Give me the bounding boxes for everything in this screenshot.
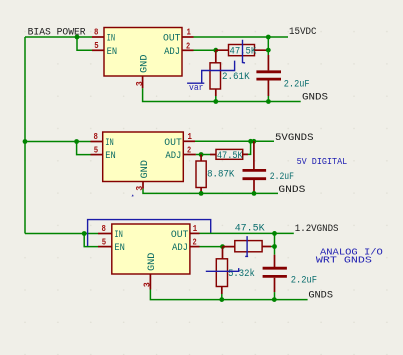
pin 1 OUT U2	[164, 131, 195, 149]
note bypass line U3	[88, 220, 211, 246]
svg-text:GND: GND	[139, 55, 150, 74]
svg-text:1: 1	[193, 223, 198, 234]
resistor 2.61K (U1 adj)	[210, 50, 250, 96]
wire: cap U3 to GNDS	[274, 292, 276, 300]
junction ADJ node U1	[213, 48, 218, 53]
pin 8 IN U2	[91, 131, 114, 149]
pin 3 GND U3	[142, 253, 159, 290]
svg-text:3: 3	[142, 282, 153, 287]
note stray blue mark	[132, 194, 134, 196]
svg-text:ADJ: ADJ	[172, 243, 188, 254]
svg-text:OUT: OUT	[164, 138, 182, 149]
svg-text:15VDC: 15VDC	[289, 27, 317, 38]
pin 8 IN U3	[98, 223, 123, 241]
resistor 47.5K (U1 feedback)	[216, 45, 268, 58]
wire: U3 ADJ to divider	[200, 246, 223, 248]
pin 1 OUT U3	[171, 223, 200, 241]
wire: EN branch U1	[77, 37, 92, 50]
svg-text:GND: GND	[140, 160, 151, 179]
wire: OUT column down U1	[267, 37, 269, 55]
junction at EN branch U2	[74, 139, 79, 144]
svg-text:5VGNDS: 5VGNDS	[275, 133, 314, 144]
svg-text:var: var	[189, 83, 204, 93]
svg-text:GND: GND	[147, 253, 158, 272]
svg-text:1: 1	[187, 27, 192, 38]
svg-text:ADJ: ADJ	[164, 47, 180, 58]
note strike on 47.5K U3	[245, 236, 248, 256]
svg-text:8: 8	[102, 223, 107, 234]
junction 47.5K right U1	[266, 48, 271, 53]
junction ADJ node U3	[220, 244, 225, 249]
svg-text:IN: IN	[105, 138, 114, 149]
junction at EN branch U3	[82, 231, 87, 236]
pin 8 IN U1	[92, 27, 115, 45]
resistor 8.87K (U2 adj)	[196, 155, 234, 194]
svg-text:2.2uF: 2.2uF	[270, 172, 294, 183]
svg-text:2.2uF: 2.2uF	[284, 79, 310, 90]
junction feedback top U2	[248, 139, 253, 144]
wire: U1 ADJ to divider	[194, 49, 216, 51]
svg-text:1: 1	[188, 131, 193, 142]
svg-text:2.61K: 2.61K	[222, 72, 250, 83]
wire: U2 ADJ to divider	[196, 154, 210, 156]
resistor 5.32k (U3 adj)	[216, 247, 255, 294]
wire: trunk to U3 IN	[25, 233, 98, 235]
wire: OUT column down U3	[271, 233, 275, 254]
junction 8.87K bottom	[199, 191, 204, 196]
svg-text:EN: EN	[107, 47, 118, 58]
pin 1 OUT U1	[163, 27, 194, 45]
capacitor 2.2uF (U3)	[263, 255, 318, 292]
svg-text:47.5K: 47.5K	[217, 151, 243, 162]
wire: EN branch U2	[77, 142, 91, 155]
pin 5 EN U1	[92, 40, 117, 58]
wire: BIAS POWER trunk vertical	[24, 37, 26, 234]
wire: U1 GNDS rail	[143, 88, 301, 101]
junction trunk to U2	[23, 139, 28, 144]
regulator U3 body	[112, 224, 190, 274]
note strike on 5.32k U3	[206, 268, 239, 271]
svg-text:8: 8	[94, 131, 99, 142]
svg-text:ADJ: ADJ	[165, 151, 181, 162]
pin 5 EN U2	[91, 144, 116, 162]
wire: feedback drop U2	[248, 141, 251, 154]
pin 2 ADJ U3	[172, 237, 200, 255]
wire: U2 OUT to 5VGNDS	[195, 140, 274, 142]
regulator U2 body	[103, 132, 184, 182]
wire: 2.61K to GNDS	[215, 96, 217, 102]
svg-text:5.32k: 5.32k	[228, 268, 255, 280]
svg-text:GNDS: GNDS	[302, 92, 328, 103]
wire: 5.32k to GNDS	[221, 294, 223, 300]
pin 2 ADJ U1	[164, 40, 193, 58]
svg-text:IN: IN	[107, 34, 116, 45]
svg-text:2: 2	[186, 40, 190, 51]
junction 2.61K bottom	[213, 99, 218, 104]
junction cap U1 bottom	[266, 99, 271, 104]
wire: U2 GNDS rail	[143, 189, 278, 194]
svg-text:5V DIGITAL: 5V DIGITAL	[297, 157, 348, 167]
junction 47.5K right U3	[272, 244, 277, 249]
svg-text:2.2uF: 2.2uF	[291, 276, 317, 287]
svg-text:GNDS: GNDS	[278, 185, 305, 196]
svg-text:1.2VGNDS: 1.2VGNDS	[295, 224, 339, 235]
wire: cap U1 to GNDS	[267, 96, 269, 102]
svg-text:5: 5	[94, 144, 99, 155]
svg-text:EN: EN	[114, 243, 125, 254]
junction OUT column U3	[272, 231, 277, 236]
note var bracket U1	[187, 61, 235, 93]
junction cap U2 bottom	[252, 191, 257, 196]
junction OUT column U1	[266, 35, 271, 40]
svg-text:2: 2	[187, 145, 191, 156]
capacitor 2.2uF (U1)	[256, 55, 309, 96]
resistor 47.5K (U2 feedback)	[210, 149, 248, 161]
pin 3 GND U2	[134, 160, 151, 191]
svg-text:IN: IN	[114, 230, 123, 241]
junction 5.32k bottom	[219, 297, 224, 302]
svg-text:47.5K: 47.5K	[235, 224, 265, 235]
wire: U3 OUT to 1.2VGNDS	[200, 232, 294, 234]
note ANALOG I/O WRT GNDS	[316, 247, 383, 265]
junction cap U3 bottom	[272, 297, 277, 302]
svg-text:8.87K: 8.87K	[207, 170, 234, 181]
svg-text:EN: EN	[105, 151, 116, 162]
capacitor 2.2uF (U2)	[243, 141, 295, 193]
resistor 47.5K (U3 feedback)	[223, 224, 272, 252]
wire: trunk to U2 IN	[25, 141, 91, 143]
wire: EN branch U3	[84, 234, 98, 247]
svg-text:OUT: OUT	[171, 230, 189, 241]
pin 5 EN U3	[98, 236, 125, 254]
svg-text:3: 3	[134, 81, 145, 86]
wire: BIAS POWER horizontal to U1 IN	[25, 36, 92, 38]
pin 3 GND U1	[134, 55, 151, 89]
svg-text:2: 2	[193, 237, 197, 248]
svg-text:GNDS: GNDS	[308, 291, 333, 302]
svg-text:5: 5	[94, 40, 99, 51]
wire: U3 GNDS rail	[150, 290, 307, 300]
svg-text:OUT: OUT	[163, 34, 181, 45]
junction ADJ node U2	[199, 152, 204, 157]
svg-text:WRT GNDS: WRT GNDS	[316, 256, 372, 266]
junction at EN branch U1	[75, 35, 80, 40]
junction cap top U2	[252, 139, 257, 144]
pin 2 ADJ U2	[165, 145, 196, 163]
svg-text:8: 8	[94, 27, 99, 38]
svg-text:5: 5	[102, 236, 107, 247]
regulator U1 body	[104, 28, 182, 77]
wire: U1 OUT to 15VDC	[194, 36, 289, 38]
note strike on 47.5K U1	[243, 40, 246, 63]
